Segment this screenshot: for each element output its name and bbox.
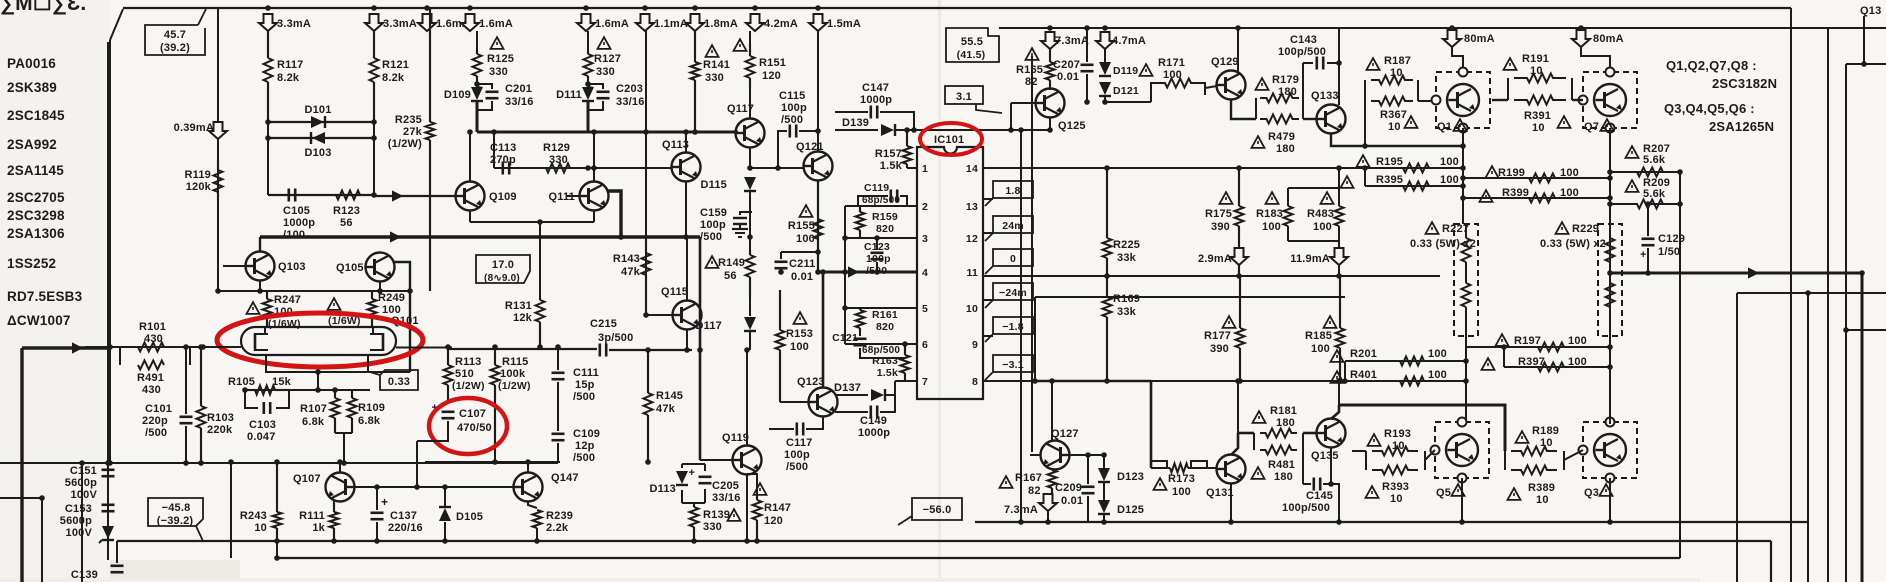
resistor R107 6.8k [331,390,340,433]
wire Q117 emitter [749,148,751,168]
svg-text:R235: R235 [395,114,422,126]
svg-text:0.33: 0.33 [388,376,410,388]
wire [1035,296,1345,298]
svg-text:14: 14 [966,163,978,175]
transistor Q1 [1447,84,1479,116]
svg-text:D139: D139 [842,117,869,129]
wire [811,158,814,174]
svg-text:82: 82 [1028,485,1041,497]
wire [699,475,712,478]
svg-text:12k: 12k [513,312,533,324]
diode D111 [582,87,594,101]
svg-text:12p: 12p [575,440,595,452]
resistor R195 100 [1402,164,1430,173]
junction [744,347,750,353]
wire [102,510,115,513]
wire main line into Q101 gate [85,346,241,348]
svg-text:10: 10 [1532,122,1545,134]
wire [1338,265,1340,276]
capacitor C121 plates [854,339,867,345]
wire Q133 collector [1338,28,1340,105]
svg-text:Q5: Q5 [1436,487,1451,499]
wire [276,541,278,558]
transistor Q103 [246,252,275,281]
svg-text:56: 56 [340,217,353,229]
wire [1104,96,1106,102]
svg-text:7: 7 [922,376,928,388]
warning triangle Q1 [1454,119,1467,131]
capacitor C201 plates [476,82,499,98]
capacitor C103 0.047 branch [245,390,258,408]
junction [407,288,413,294]
wire [102,475,115,478]
svg-text:C137: C137 [390,510,417,522]
svg-text:R115: R115 [502,356,529,368]
wire [1288,240,1339,242]
capacitor C201 33/16 [476,82,499,110]
wire [739,224,741,229]
wire [1302,63,1304,98]
wire [1345,360,1466,362]
transistor Q5 [1446,434,1478,466]
transistor Q127 [1041,441,1070,470]
wire right bus 4 [1736,293,1738,582]
resistor R131 12k [536,298,545,347]
diode D109 [471,87,483,101]
wire [845,307,917,309]
svg-text:R401: R401 [1350,369,1377,381]
warning triangle R479 [1252,136,1265,148]
wire [1303,118,1317,120]
wire Q123 collector [822,272,825,388]
resistor pair R187/R367 [1365,76,1436,147]
wire [885,381,895,395]
wire [1288,187,1339,189]
wire [795,125,798,138]
svg-text:0.33 (5W) x2: 0.33 (5W) x2 [1410,238,1476,250]
wire [704,489,706,503]
junction [692,5,698,11]
wire [871,252,884,255]
wire [1030,454,1041,456]
wire Q7 emitter column [1609,128,1611,273]
wire [781,251,818,253]
text output device types [1664,58,1777,134]
svg-text:R161: R161 [872,309,898,321]
wire [1737,292,1886,294]
wire [647,415,649,462]
junction [1047,25,1053,31]
junction [1336,519,1342,525]
wire [521,479,524,495]
junction [691,538,697,544]
svg-text:220p: 220p [142,415,168,427]
wire Q135 collector [1331,405,1339,419]
warning triangle R201 [1331,350,1344,362]
svg-text:33k: 33k [1117,306,1137,318]
resistor R115 100k [491,347,500,452]
wire [539,298,541,300]
wire [749,331,751,350]
warning triangle R165 [1026,48,1039,60]
wire [102,539,114,541]
wire [1770,541,1772,582]
svg-text:/100: /100 [283,229,305,241]
wire [1465,224,1467,238]
svg-text:R199: R199 [1498,167,1525,179]
warning triangle R397 [1482,358,1495,370]
svg-text:820: 820 [876,223,894,235]
wire [1455,442,1458,458]
red annotation ellipse around IC101 [920,123,982,155]
wire jog down [1196,83,1205,95]
junction [467,129,473,135]
FET Q101 internal bars [255,327,383,351]
wire [704,464,706,471]
wire [276,528,278,541]
wire [1609,307,1611,336]
capacitor C153 5600p/100V [102,505,115,511]
junction [1328,481,1334,487]
svg-text:R159: R159 [872,211,898,223]
wire [1086,74,1088,102]
transistor Q147 [514,473,543,502]
junction [1460,175,1466,181]
resistor pair R183/R483 [1284,168,1344,248]
callout -56.0 [898,498,962,525]
svg-text:C143: C143 [1290,34,1317,46]
wire [733,223,747,225]
svg-text:R167: R167 [1015,472,1042,484]
wire [1051,488,1053,494]
diode D115 [744,177,756,191]
signal arrow on bus [390,231,401,242]
wire [1253,433,1255,450]
wire [276,462,278,512]
junction [274,555,280,561]
junction [1460,195,1466,201]
svg-text:/500: /500 [786,461,808,473]
wire feedback bus 2 [1031,56,1033,452]
resistor R235 27k [426,8,435,291]
junction [1607,364,1613,370]
transistor Q121 [804,152,833,181]
diode D101 [268,121,374,123]
wire [373,82,375,122]
current arrow 2.9mA [1230,248,1248,265]
capacitor C123 100p/500 [871,238,884,272]
svg-text:2.9mA: 2.9mA [1198,253,1232,265]
svg-text:7.3mA: 7.3mA [1004,504,1038,516]
svg-text:C147: C147 [862,82,889,94]
wire [1106,317,1108,381]
wire [111,571,124,574]
wire [1098,481,1110,483]
svg-text:R183: R183 [1256,208,1283,220]
resistor R169 33k [1103,276,1112,381]
diode D137 symbol [871,389,885,401]
capacitor C137 plates [371,513,384,519]
wire [693,503,695,505]
junction [747,234,753,240]
wire [1087,496,1089,522]
capacitor C205 33/16 [689,467,712,483]
svg-text:R491: R491 [137,372,164,384]
svg-text:Q103: Q103 [278,261,306,273]
wire [1151,467,1170,469]
wire [536,528,538,541]
svg-text:D123: D123 [1117,471,1144,483]
wire [1339,348,1341,381]
svg-text:100: 100 [1313,221,1332,233]
resistor R225 33k [1103,168,1112,276]
junction [442,538,448,544]
wire [552,371,565,374]
svg-text:C119: C119 [864,182,889,194]
dual FET Q101 envelope [241,327,396,355]
wire [983,232,993,234]
wire [854,337,867,340]
svg-text:D121: D121 [1113,85,1139,97]
svg-text:R187: R187 [1384,55,1411,67]
wire [1047,511,1049,522]
diode D103 symbol [311,132,325,144]
wire [818,271,917,274]
warning triangle R229 [1556,222,1569,234]
wire [587,101,590,132]
svg-text:330: 330 [703,521,722,533]
wire [1451,28,1453,30]
resistor R229 0.33 5W body [1606,224,1615,336]
wire [1465,307,1467,336]
wire [756,520,758,541]
capacitor C105 1000p/100 [289,189,295,202]
svg-text:/500: /500 [700,231,722,243]
transistor Q115 [673,301,702,330]
resistor R125 330 [473,50,482,84]
svg-text:C159: C159 [700,207,727,219]
wire emitter rail [218,290,410,292]
current arrow 1.6mA [461,14,479,31]
current arrow 7.3mA bottom [1039,494,1057,511]
junction [775,165,781,171]
svg-text:1.8: 1.8 [1005,185,1020,197]
wire [1106,276,1108,297]
wire [444,487,446,506]
wire [1364,80,1366,146]
wire [1324,111,1327,127]
wire [597,91,610,94]
svg-text:R119: R119 [185,169,212,181]
junction [442,484,448,490]
junction [492,459,498,465]
junction [257,288,263,294]
wire [1466,346,1610,348]
junction [1018,127,1024,133]
wire [780,271,782,272]
junction [754,538,760,544]
warning triangle R125 [491,37,504,49]
wire [859,328,861,332]
svg-text:10: 10 [1536,494,1549,506]
capacitor C119 68p/500 [858,190,907,207]
svg-text:2SA1265N: 2SA1265N [1709,119,1774,134]
junction [1047,127,1053,133]
wire [1150,381,1153,468]
wire Q121 emitter [817,180,819,272]
wire [1098,513,1110,515]
wire [476,101,479,132]
wire [429,140,431,291]
wire [425,461,560,463]
wire [645,275,647,315]
wire [693,503,695,507]
wire [470,221,594,223]
wire [1103,482,1105,500]
wire [41,498,43,582]
svg-text:/500: /500 [573,452,595,464]
svg-text:R125: R125 [487,53,514,65]
wire [645,240,647,253]
junction [815,249,821,255]
transistor Q7 dashed box [1583,72,1637,128]
resistor R113 510 [444,347,453,403]
junction [842,269,848,275]
transistor Q125 [1036,89,1065,118]
svg-text:(1/2W): (1/2W) [452,380,485,392]
svg-text:+: + [1640,249,1647,261]
wire [494,452,496,462]
svg-text:−24m: −24m [999,287,1027,299]
resistor R239 2.2k [528,501,542,541]
wire [557,443,559,462]
diode D125 symbol [1098,500,1110,514]
svg-text:R107: R107 [300,403,327,415]
transistor Q123 [809,388,838,417]
warning triangle R401 [1331,371,1344,383]
svg-text:3.3mA: 3.3mA [383,18,417,30]
wire [429,8,431,122]
resistor R155 100 [814,219,823,239]
junction [874,235,880,241]
junction [1449,25,1455,31]
svg-text:R149: R149 [718,257,745,269]
svg-text:R367: R367 [1380,109,1407,121]
junction [1342,378,1348,384]
wire [681,490,683,503]
wire [859,206,861,212]
wire [1086,28,1088,62]
wire [749,277,751,297]
junction [200,344,206,350]
wire feedback bus 1 [1020,130,1022,522]
svg-text:R197: R197 [1514,335,1541,347]
svg-text:56: 56 [724,270,737,282]
warning triangle R189 [1516,431,1529,443]
svg-text:1.5mA: 1.5mA [827,18,861,30]
warning triangle R149 [706,256,719,268]
wire [749,88,751,118]
svg-text:D105: D105 [456,511,483,523]
junction [1336,60,1342,66]
wire [81,463,83,582]
wire [217,192,219,200]
warning triangle R249 [328,298,341,310]
wire [1324,425,1327,441]
svg-text:10: 10 [1388,121,1401,133]
wire [1238,226,1240,276]
svg-text:3p/500: 3p/500 [598,332,633,344]
wire [373,259,376,275]
junction [1008,127,1014,133]
capacitor C143 100p/500 bypass [1303,57,1339,99]
resistor R121 8.2k [370,31,379,122]
junction [371,5,377,11]
wire [699,482,712,485]
junction [1677,201,1683,207]
wire sense bus right [1679,172,1681,558]
capacitor C101 220p/500 [180,417,193,423]
svg-text:330: 330 [596,66,615,78]
wire [373,122,375,195]
wire [1603,92,1606,108]
svg-text:C203: C203 [616,83,643,95]
svg-text:R129: R129 [543,142,570,154]
svg-text:R139: R139 [703,509,730,521]
resistor R139 330 [690,503,699,541]
callout 0.33 [370,370,418,390]
svg-text:Q105: Q105 [336,262,364,274]
wire [1059,447,1062,463]
warning triangle R227 [1426,222,1439,234]
svg-text:R243: R243 [240,510,267,522]
svg-text:C113: C113 [490,142,517,154]
wire [694,80,696,132]
capacitor C149 plates [871,406,877,419]
wire to Q129 base [1205,86,1217,88]
wire [373,31,375,58]
svg-text:R227: R227 [1442,223,1469,235]
junction [902,341,908,347]
svg-text:R179: R179 [1272,74,1299,86]
resistor pair R181/R481 [1238,429,1317,455]
svg-text:1.5k: 1.5k [880,160,903,172]
svg-text:7.3mA: 7.3mA [1055,35,1089,47]
wire [744,190,756,192]
junction [1362,143,1368,149]
wire lower-left rail [0,462,558,464]
junction [371,135,377,141]
svg-text:1.5k: 1.5k [877,367,898,379]
wire [1081,70,1094,73]
wire [217,160,219,170]
wire [1580,28,1582,30]
junction [683,129,689,135]
junction [492,344,498,350]
svg-text:Q147: Q147 [551,472,579,484]
svg-text:R479: R479 [1268,131,1295,143]
junction [585,165,591,171]
warning triangle R175 [1220,192,1233,204]
svg-text:Q3,Q4,Q5,Q6 :: Q3,Q4,Q5,Q6 : [1664,101,1755,116]
resistor pair R193/R393 [1352,447,1435,475]
callout −3.1 [985,355,1033,380]
wire [1287,188,1289,206]
svg-text:R393: R393 [1382,481,1409,493]
junction [265,135,271,141]
svg-text:5600p: 5600p [65,477,97,489]
junction [842,235,848,241]
